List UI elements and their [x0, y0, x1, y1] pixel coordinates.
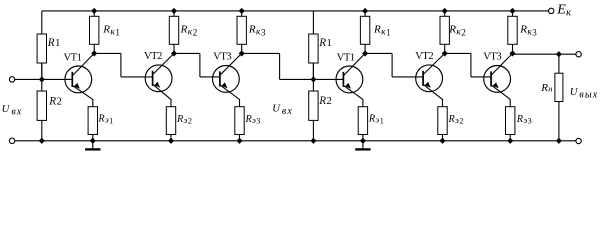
- svg-text:R1: R1: [47, 37, 61, 49]
- svg-text:VT3: VT3: [213, 51, 231, 62]
- svg-text:Rэ1: Rэ1: [97, 114, 113, 126]
- svg-text:Rэ2: Rэ2: [176, 114, 192, 126]
- svg-text:Rэ3: Rэ3: [516, 114, 532, 126]
- svg-text:Rн: Rн: [540, 82, 552, 94]
- svg-text:R2: R2: [48, 96, 62, 108]
- svg-text:R1: R1: [318, 37, 332, 49]
- svg-text:Rэ1: Rэ1: [368, 114, 384, 126]
- svg-text:VT3: VT3: [483, 51, 501, 62]
- svg-text:VT1: VT1: [64, 52, 82, 63]
- svg-text:VT2: VT2: [415, 51, 433, 62]
- svg-text:VT2: VT2: [144, 51, 162, 62]
- svg-text:Rэ3: Rэ3: [245, 114, 261, 126]
- svg-text:VT1: VT1: [337, 52, 355, 63]
- svg-text:Rэ2: Rэ2: [448, 114, 464, 126]
- svg-text:R2: R2: [318, 95, 332, 107]
